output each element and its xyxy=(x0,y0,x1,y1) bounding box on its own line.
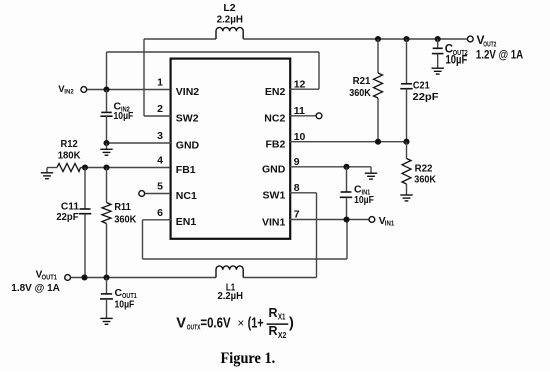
wire CIN1 to VIN1 xyxy=(346,197,348,219)
inductor L2 xyxy=(216,27,243,39)
terminal NC2 open xyxy=(316,113,322,119)
wire NC1 xyxy=(145,193,170,195)
terminal VOUT1 xyxy=(65,275,71,281)
svg-text:VIN2: VIN2 xyxy=(176,86,200,98)
wire C11 to VOUT1 xyxy=(84,214,86,278)
svg-text:FB2: FB2 xyxy=(265,139,285,151)
junction FB1-R11 node xyxy=(103,164,109,170)
wire to pin 2 xyxy=(144,115,171,117)
svg-text:10µF: 10µF xyxy=(446,54,468,66)
wire EN2 loop left vertical xyxy=(106,52,108,90)
wire R12 gnd stub xyxy=(46,168,48,173)
svg-text:SW2: SW2 xyxy=(176,112,199,124)
wire VIN2 to pin 1 xyxy=(87,89,170,91)
wire EN1 loop left vertical xyxy=(142,220,144,259)
svg-text:X1: X1 xyxy=(278,311,286,321)
svg-text:R: R xyxy=(269,324,278,338)
wire SW2 vertical xyxy=(143,39,145,116)
wire to pin 3 GND xyxy=(107,142,172,144)
svg-text:1.8V @ 1A: 1.8V @ 1A xyxy=(11,283,60,294)
svg-text:R12: R12 xyxy=(61,138,78,150)
svg-text:EN1: EN1 xyxy=(176,216,197,228)
wire VOUT1 to L1 xyxy=(71,277,217,279)
svg-text:6: 6 xyxy=(157,207,163,219)
wire FB2 xyxy=(290,141,407,143)
svg-text:OUT1: OUT1 xyxy=(42,274,57,281)
svg-text:10µF: 10µF xyxy=(115,299,135,311)
svg-text:10µF: 10µF xyxy=(354,194,374,206)
svg-text:R11: R11 xyxy=(114,201,131,213)
svg-text:1: 1 xyxy=(157,77,163,89)
svg-text:SW1: SW1 xyxy=(263,190,286,202)
svg-text:3: 3 xyxy=(157,130,163,142)
wire EN2 loop top xyxy=(107,51,320,53)
capacitor CIN2 xyxy=(101,111,112,113)
svg-text:5: 5 xyxy=(157,181,163,193)
svg-text:Figure 1.: Figure 1. xyxy=(221,350,276,367)
terminal VIN1 xyxy=(369,217,375,223)
svg-text:VIN1: VIN1 xyxy=(262,216,286,228)
svg-text:NC2: NC2 xyxy=(264,113,285,125)
wire pin 8 SW1 xyxy=(290,192,317,194)
capacitor CIN1 xyxy=(341,191,352,193)
ground CIN2 xyxy=(100,149,112,155)
junction top-COUT2 node xyxy=(435,36,441,42)
terminal NC1 open xyxy=(139,191,145,197)
svg-text:2: 2 xyxy=(157,103,163,115)
resistor R21 xyxy=(374,73,383,98)
wire to COUT2 xyxy=(437,39,439,48)
svg-text:R21: R21 xyxy=(353,75,371,87)
ground R22 xyxy=(400,195,412,201)
wire to CIN1 xyxy=(346,167,348,192)
svg-text:=0.6V: =0.6V xyxy=(200,315,230,331)
junction FB2-R21 node xyxy=(375,139,381,145)
wire L1 to SW1 vertical xyxy=(243,277,316,279)
ground pin 9 xyxy=(365,173,377,179)
svg-text:V: V xyxy=(176,315,186,331)
wire NC2 xyxy=(290,115,316,117)
svg-text:IN1: IN1 xyxy=(385,220,395,227)
svg-text:L2: L2 xyxy=(223,2,235,14)
svg-text:IN2: IN2 xyxy=(64,89,74,96)
wire L2 to VOUT2 terminal xyxy=(243,38,467,40)
junction VOUT1-R11 node xyxy=(103,274,109,280)
svg-text:GND: GND xyxy=(262,164,286,176)
capacitor COUT1 xyxy=(101,293,112,295)
wire FB1 xyxy=(81,167,171,169)
junction FB2-C21-R22 node xyxy=(403,139,409,145)
IC U1 body xyxy=(171,59,291,239)
svg-text:22pF: 22pF xyxy=(56,211,79,223)
junction CIN2 gnd node xyxy=(103,140,109,146)
ground COUT2 xyxy=(432,68,444,74)
junction VIN1 node xyxy=(343,216,349,222)
wire to R22 xyxy=(406,142,408,159)
svg-text:R22: R22 xyxy=(415,162,433,174)
wire to pin 12 EN2 xyxy=(290,88,320,90)
svg-text:10µF: 10µF xyxy=(114,110,134,122)
svg-text:): ) xyxy=(289,315,294,331)
junction top-C21 node xyxy=(403,36,409,42)
wire SW1 vertical xyxy=(316,193,318,278)
resistor R11 xyxy=(102,203,111,224)
terminal VIN2 xyxy=(81,87,87,93)
wire pin 9 GND xyxy=(290,166,372,168)
wire to R21 xyxy=(377,39,379,73)
svg-text:EN2: EN2 xyxy=(265,86,286,98)
wire EN1 loop right vertical xyxy=(346,220,348,260)
svg-text:(1+: (1+ xyxy=(248,315,264,331)
wire to COUT1 xyxy=(106,278,108,294)
resistor R12 xyxy=(57,164,81,172)
capacitor C21 xyxy=(401,83,412,85)
junction GND-CIN1 node xyxy=(343,164,349,170)
svg-text:R: R xyxy=(269,306,278,320)
svg-text:360K: 360K xyxy=(414,174,436,186)
svg-text:×: × xyxy=(238,318,245,330)
junction VIN2 node xyxy=(103,86,109,92)
terminal VOUT2 xyxy=(467,36,473,42)
svg-text:C21: C21 xyxy=(413,79,430,91)
wire R11 to VOUT1 xyxy=(106,224,108,278)
wire C21 to FB2 xyxy=(406,89,408,142)
resistor R22 xyxy=(402,159,411,185)
wire to CIN2 xyxy=(106,90,108,112)
wire R12 left lead xyxy=(47,167,57,169)
svg-text:GND: GND xyxy=(176,139,200,151)
svg-text:2.2µH: 2.2µH xyxy=(217,290,243,302)
wire EN2 loop right vertical xyxy=(318,52,320,89)
wire pin 6 EN1 xyxy=(143,219,172,221)
wire EN1 loop bottom xyxy=(143,258,348,260)
svg-text:360K: 360K xyxy=(349,87,371,99)
svg-text:OUTX: OUTX xyxy=(187,323,201,332)
wire gnd stub xyxy=(106,143,108,149)
wire COUT1 to gnd xyxy=(106,299,108,319)
svg-text:FB1: FB1 xyxy=(176,164,196,176)
wire gnd stub pin 9 xyxy=(370,167,372,173)
svg-text:180K: 180K xyxy=(58,150,81,162)
junction FB1-C11 node xyxy=(82,164,88,170)
svg-text:4: 4 xyxy=(157,155,163,167)
wire SW2 to L2 xyxy=(144,38,216,40)
junction top-R21 node xyxy=(375,36,381,42)
svg-text:X2: X2 xyxy=(278,330,287,340)
wire R21 to FB2 xyxy=(377,98,379,142)
wire to R11 xyxy=(106,168,108,203)
svg-text:2.2µH: 2.2µH xyxy=(217,13,243,25)
ground COUT1 xyxy=(100,318,112,324)
svg-text:22pF: 22pF xyxy=(413,91,440,103)
inductor L1 xyxy=(216,266,243,278)
ground R12 xyxy=(41,173,53,179)
wire R22 to gnd xyxy=(406,184,408,195)
wire CIN2 to gnd node xyxy=(106,116,108,143)
junction VOUT1-C11 node xyxy=(81,274,87,280)
svg-text:1.2V @ 1A: 1.2V @ 1A xyxy=(476,48,524,62)
wire to C11 xyxy=(84,168,86,209)
capacitor COUT2 xyxy=(433,47,443,49)
svg-text:360K: 360K xyxy=(114,213,137,225)
capacitor C11 xyxy=(80,208,91,210)
wire pin 7 VIN1 xyxy=(290,219,369,221)
svg-text:NC1: NC1 xyxy=(176,190,197,202)
wire COUT2 to gnd xyxy=(437,54,439,69)
wire to C21 xyxy=(406,39,408,84)
